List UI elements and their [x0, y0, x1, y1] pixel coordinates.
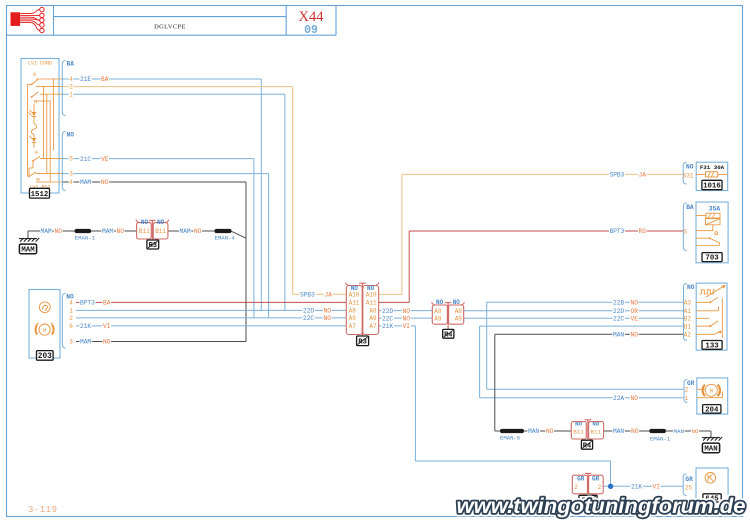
svg-text:R4: R4 [583, 442, 591, 450]
svg-text:3: 3 [69, 339, 73, 346]
svg-text:22D: 22D [303, 308, 314, 315]
svg-text:2: 2 [685, 387, 689, 394]
svg-text:GR: GR [592, 475, 600, 482]
svg-text:6: 6 [69, 323, 73, 330]
svg-text:1512: 1512 [31, 191, 49, 199]
svg-text:A9: A9 [369, 315, 377, 322]
svg-text:35A: 35A [709, 206, 721, 213]
svg-text:NO: NO [575, 420, 582, 427]
svg-text:A8: A8 [349, 308, 357, 315]
svg-text:1016: 1016 [703, 183, 721, 191]
svg-text:NO: NO [403, 315, 411, 322]
svg-text:22A: 22A [613, 395, 624, 402]
svg-text:21C: 21C [80, 156, 91, 163]
svg-text:S31: S31 [683, 172, 694, 179]
svg-text:NO: NO [194, 228, 202, 235]
svg-text:25: 25 [685, 485, 693, 492]
svg-text:NO: NO [692, 428, 699, 435]
svg-text:21K: 21K [631, 484, 642, 491]
svg-text:BPT3: BPT3 [610, 228, 625, 235]
svg-text:703: 703 [705, 255, 719, 263]
svg-text:B11: B11 [155, 228, 166, 235]
svg-text:R3: R3 [358, 338, 366, 346]
svg-text:NO: NO [103, 339, 111, 346]
svg-text:NO: NO [157, 219, 165, 226]
svg-text:NO: NO [631, 395, 639, 402]
svg-text:0: 0 [35, 150, 38, 156]
svg-text:22D: 22D [613, 308, 624, 315]
svg-text:MAM: MAM [41, 228, 52, 235]
svg-text:MAM: MAM [21, 247, 35, 255]
svg-text:X44: X44 [299, 9, 325, 25]
svg-text:BA: BA [103, 300, 111, 307]
svg-text:NO: NO [631, 428, 639, 435]
svg-text:A1: A1 [684, 308, 692, 315]
svg-text:DGLVCPE: DGLVCPE [154, 24, 186, 31]
svg-text:R3: R3 [149, 242, 157, 250]
svg-text:A9: A9 [349, 315, 357, 322]
svg-text:2: 2 [69, 84, 73, 91]
svg-text:B2: B2 [684, 316, 692, 323]
svg-text:A7: A7 [369, 323, 377, 330]
svg-text:22D: 22D [382, 308, 393, 315]
svg-text:204: 204 [705, 407, 719, 415]
svg-text:4: 4 [69, 300, 73, 307]
svg-text:VI: VI [653, 484, 661, 491]
svg-text:MAM: MAM [80, 179, 91, 186]
svg-text:MAN: MAN [674, 428, 685, 435]
svg-text:21K: 21K [382, 323, 393, 330]
svg-text:NO: NO [436, 299, 444, 306]
svg-text:A11: A11 [349, 300, 360, 307]
svg-text:M: M [710, 389, 713, 395]
svg-text:BPT3: BPT3 [80, 300, 95, 307]
svg-text:www.twingotuningforum.de: www.twingotuningforum.de [457, 495, 746, 518]
svg-text:B11: B11 [573, 428, 584, 435]
svg-text:4: 4 [69, 179, 73, 186]
svg-text:JA: JA [639, 172, 647, 179]
svg-text:SPB3: SPB3 [610, 172, 625, 179]
svg-text:R4: R4 [444, 331, 452, 339]
svg-text:A9: A9 [455, 316, 463, 323]
svg-text:A8: A8 [434, 308, 442, 315]
svg-text:OR: OR [631, 308, 639, 315]
svg-text:BA: BA [686, 204, 694, 211]
svg-text:3: 3 [69, 171, 73, 178]
svg-text:BA: BA [67, 60, 75, 67]
svg-text:EMAN-5: EMAN-5 [500, 435, 520, 442]
svg-text:22C: 22C [303, 315, 314, 322]
svg-text:MAM: MAM [102, 228, 113, 235]
svg-text:09: 09 [304, 24, 318, 37]
svg-text:M: M [43, 328, 46, 334]
svg-text:NO: NO [631, 300, 639, 307]
svg-text:GR: GR [577, 475, 585, 482]
svg-text:21K: 21K [80, 323, 91, 330]
svg-text:NO: NO [324, 315, 332, 322]
svg-text:F31 30A: F31 30A [700, 164, 725, 171]
svg-text:1: 1 [69, 91, 73, 98]
svg-text:B11: B11 [139, 228, 150, 235]
svg-text:NO: NO [687, 284, 695, 291]
svg-text:BA: BA [101, 76, 109, 83]
svg-text:MAN: MAN [613, 332, 624, 339]
svg-text:GR: GR [685, 476, 693, 483]
svg-text:NO: NO [117, 228, 125, 235]
svg-text:NO: NO [67, 132, 75, 139]
svg-text:SPB3: SPB3 [300, 292, 315, 299]
svg-text:133: 133 [705, 343, 719, 351]
svg-text:22C: 22C [382, 315, 393, 322]
svg-text:NO: NO [55, 228, 63, 235]
svg-text:EMAN-1: EMAN-1 [75, 234, 96, 241]
svg-text:203: 203 [38, 353, 52, 361]
svg-text:A8: A8 [455, 308, 463, 315]
svg-text:NO: NO [403, 308, 411, 315]
svg-text:2: 2 [598, 484, 602, 491]
svg-text:NO: NO [101, 179, 109, 186]
svg-text:MAN: MAN [528, 428, 539, 435]
svg-text:A2: A2 [684, 332, 692, 339]
svg-text:EMAN-1: EMAN-1 [650, 436, 671, 443]
svg-text:MAM: MAM [180, 228, 191, 235]
svg-text:4: 4 [69, 76, 73, 83]
svg-text:A9: A9 [434, 316, 442, 323]
svg-text:LVI COND: LVI COND [28, 61, 52, 67]
svg-text:NO: NO [546, 428, 554, 435]
svg-text:A10: A10 [349, 292, 360, 299]
svg-text:NO: NO [141, 219, 149, 226]
svg-text:3-119: 3-119 [28, 505, 58, 515]
svg-text:21E: 21E [80, 76, 91, 83]
svg-text:B1: B1 [684, 323, 692, 330]
svg-text:A8: A8 [369, 308, 377, 315]
svg-text:2: 2 [574, 484, 578, 491]
svg-text:MAN: MAN [613, 428, 624, 435]
svg-text:22B: 22B [613, 300, 624, 307]
svg-text:EMAN-4: EMAN-4 [215, 234, 236, 241]
svg-text:22C: 22C [613, 316, 624, 323]
svg-text:JA: JA [325, 292, 333, 299]
svg-text:2: 2 [69, 315, 73, 322]
svg-text:MAN: MAN [704, 446, 717, 454]
svg-text:A11: A11 [366, 300, 377, 307]
svg-text:NO: NO [592, 420, 599, 427]
svg-text:A10: A10 [366, 292, 377, 299]
svg-text:NO: NO [686, 163, 694, 170]
svg-text:5: 5 [69, 156, 73, 163]
svg-text:NO: NO [324, 308, 332, 315]
svg-text:VI: VI [103, 323, 111, 330]
svg-text:NO: NO [631, 332, 639, 339]
svg-text:VE: VE [631, 316, 639, 323]
svg-text:S: S [683, 228, 687, 235]
svg-text:MAM: MAM [80, 339, 91, 346]
svg-text:NO: NO [453, 299, 461, 306]
svg-text:A7: A7 [349, 323, 357, 330]
svg-text:0: 0 [33, 72, 36, 78]
svg-text:RG: RG [639, 228, 647, 235]
svg-text:B11: B11 [591, 428, 602, 435]
svg-text:VE: VE [101, 156, 109, 163]
svg-text:A3: A3 [684, 300, 692, 307]
svg-text:1: 1 [69, 308, 73, 315]
svg-text:VI: VI [403, 323, 411, 330]
svg-text:1: 1 [685, 395, 689, 402]
svg-text:M: M [36, 177, 39, 183]
